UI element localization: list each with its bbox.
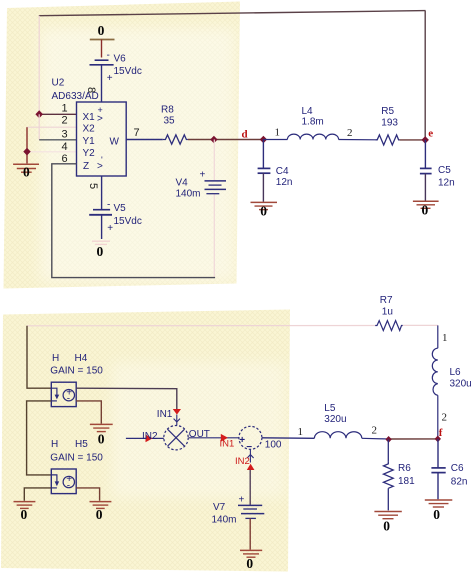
- svg-text:-: -: [67, 394, 70, 405]
- svg-text:H5: H5: [75, 439, 88, 450]
- svg-text:V4: V4: [176, 178, 189, 189]
- svg-text:+: +: [239, 435, 245, 446]
- svg-text:0: 0: [422, 203, 429, 218]
- svg-text:100: 100: [265, 439, 282, 450]
- wire W output pin7: [126, 139, 163, 141]
- svg-text:V5: V5: [114, 203, 127, 214]
- wire pin3 Y1: [39, 139, 76, 141]
- wire V7 to summer: [249, 470, 251, 505]
- wire H5 lower-right to ground: [76, 488, 99, 501]
- svg-text:-: -: [67, 480, 70, 491]
- svg-text:L6: L6: [450, 367, 462, 378]
- svg-text:2: 2: [372, 425, 378, 437]
- ground 0 at H5 left: [14, 502, 36, 522]
- wire H4 lower-left to H5: [27, 401, 52, 475]
- svg-text:0: 0: [383, 519, 390, 534]
- wire R5 to node e: [400, 139, 426, 141]
- svg-text:Y2: Y2: [83, 148, 96, 159]
- svg-text:>: >: [97, 114, 103, 125]
- svg-text:0: 0: [21, 507, 28, 522]
- capacitor C4: [258, 140, 293, 202]
- svg-text:1u: 1u: [382, 307, 393, 318]
- wire faint vertical X1 to Y1: [38, 114, 40, 140]
- wire node e vertical to top: [424, 11, 426, 140]
- svg-text:2: 2: [347, 127, 353, 139]
- svg-text:C6: C6: [451, 463, 464, 474]
- ground 0 at H5 right: [90, 502, 112, 522]
- svg-text:0: 0: [97, 244, 104, 259]
- svg-text:1: 1: [275, 127, 281, 139]
- svg-text:3: 3: [62, 129, 68, 141]
- svg-text:R8: R8: [161, 105, 174, 116]
- highlight box 1 (top yellow region): [4, 2, 241, 289]
- IN2 arrow: [146, 435, 153, 443]
- svg-text:U2: U2: [52, 78, 65, 89]
- wire X2 ground drop: [26, 127, 28, 163]
- svg-text:+: +: [200, 170, 206, 181]
- svg-text:GAIN = 150: GAIN = 150: [50, 366, 103, 377]
- junction at node e: [422, 136, 429, 144]
- junction at node f: [435, 436, 441, 443]
- wire H5 lower-left to ground: [24, 488, 51, 501]
- svg-text:C5: C5: [438, 165, 451, 176]
- wire faint pin2 X2: [27, 126, 77, 128]
- svg-text:193: 193: [381, 118, 398, 129]
- svg-text:e: e: [428, 128, 433, 140]
- transformer-source H5 body: [51, 469, 76, 494]
- svg-text:1: 1: [442, 332, 448, 344]
- wire IN2 into multiplier: [126, 437, 164, 439]
- svg-text:15Vdc: 15Vdc: [114, 216, 142, 227]
- IN1 arrow into multiplier: [173, 409, 181, 415]
- svg-text:H4: H4: [75, 353, 88, 364]
- source V7 140m: [212, 495, 265, 526]
- capacitor C5: [420, 140, 455, 201]
- summer IN1 arrow: [221, 434, 228, 442]
- wire faint R7 to L6: [403, 324, 438, 326]
- svg-text:82n: 82n: [451, 477, 468, 488]
- ground 0 below R6: [374, 512, 401, 534]
- svg-text:+: +: [239, 495, 245, 506]
- multiplier pin stub top: [174, 415, 180, 426]
- wire R8 to node d: [188, 139, 264, 141]
- source V5 15Vdc: [89, 176, 142, 239]
- wire multiplier OUT to summer: [188, 437, 239, 439]
- svg-text:12n: 12n: [438, 178, 455, 189]
- svg-text:V7: V7: [213, 502, 226, 513]
- svg-text:+: +: [107, 223, 113, 234]
- wire faint vertical input to X1: [38, 16, 40, 115]
- svg-text:H: H: [51, 439, 58, 450]
- resistor R5: [375, 135, 399, 145]
- svg-text:-: -: [107, 50, 110, 61]
- svg-text:-: -: [107, 200, 110, 211]
- svg-text:>: >: [97, 161, 103, 172]
- svg-text:320u: 320u: [324, 414, 346, 425]
- ground 0 below C6: [425, 500, 453, 522]
- ground 0 below C5: [413, 201, 439, 217]
- U2 pin numbers: [62, 87, 140, 189]
- svg-text:d: d: [242, 129, 248, 141]
- svg-text:Y1: Y1: [83, 136, 96, 147]
- svg-text:IN2: IN2: [235, 456, 250, 467]
- svg-text:0: 0: [96, 507, 103, 522]
- wire H4 lower-right to ground: [76, 401, 101, 424]
- svg-text:X1: X1: [83, 112, 96, 123]
- svg-text:7: 7: [134, 127, 140, 139]
- junction at R6 tap: [385, 436, 391, 443]
- wire faint R7 run left: [27, 325, 375, 327]
- junction at node d: [260, 136, 267, 144]
- source V6 15Vdc: [90, 50, 142, 102]
- svg-text:1.8m: 1.8m: [302, 117, 324, 128]
- ground 0 at H4 right: [90, 424, 113, 446]
- svg-text:2: 2: [62, 115, 68, 127]
- svg-text:1: 1: [62, 103, 68, 115]
- junction after R8: [210, 136, 217, 144]
- svg-text:140m: 140m: [176, 189, 201, 200]
- wire top feedback run: [39, 11, 426, 16]
- op-amp U2 AD633 body: [77, 102, 127, 176]
- svg-text:8: 8: [85, 87, 97, 93]
- ground 0 below V7: [240, 550, 262, 571]
- svg-text:H: H: [52, 353, 59, 364]
- svg-text:35: 35: [164, 116, 176, 127]
- svg-text:1: 1: [298, 426, 304, 438]
- wire H4 input vertical: [27, 326, 51, 388]
- svg-text:IN2: IN2: [142, 431, 158, 442]
- resistor R6: [384, 439, 416, 510]
- wire faint V4 feedback vertical: [213, 140, 215, 278]
- wire V7 to ground: [249, 518, 251, 549]
- ground 0 at X2/Y2: [13, 164, 39, 179]
- node junction at X1 input: [35, 110, 43, 118]
- svg-text:320u: 320u: [450, 379, 472, 390]
- wire pin1 X1: [39, 113, 76, 115]
- svg-text:C4: C4: [276, 166, 289, 177]
- wire L5 to node f: [389, 438, 438, 440]
- svg-text:GAIN = 150: GAIN = 150: [50, 452, 103, 463]
- wire H4 output to multiplier: [76, 388, 177, 409]
- svg-text:0: 0: [246, 556, 253, 571]
- ground 0 below V5 (faint): [92, 241, 110, 259]
- pale scan-light patch box1: [40, 28, 236, 282]
- node junction at Y2/ground: [23, 148, 30, 156]
- svg-text:0: 0: [98, 23, 105, 38]
- multiplier MULT circle: [164, 426, 188, 450]
- svg-text:140m: 140m: [212, 515, 237, 526]
- ground 0 above V6: [90, 23, 115, 58]
- svg-text:4: 4: [62, 141, 68, 153]
- inductor L5: [314, 432, 388, 439]
- summer bottom pin stub: [247, 450, 253, 463]
- svg-text:W: W: [110, 136, 120, 147]
- svg-text:V6: V6: [114, 54, 127, 65]
- svg-text:15Vdc: 15Vdc: [114, 66, 142, 77]
- svg-text:R7: R7: [380, 295, 393, 306]
- source V4 140m: [176, 170, 227, 200]
- resistor R7: [375, 321, 403, 331]
- capacitor C6: [431, 439, 467, 499]
- svg-text:X2: X2: [83, 124, 96, 135]
- highlight box 2 (bottom yellow region): [1, 310, 290, 572]
- svg-text:−: −: [246, 442, 252, 453]
- svg-text:R5: R5: [381, 106, 394, 117]
- ground 0 below C4: [251, 202, 278, 218]
- svg-text:R6: R6: [398, 463, 411, 474]
- transformer-source H4 body: [51, 382, 76, 406]
- inductor L6: [432, 325, 438, 438]
- svg-text:0: 0: [98, 432, 105, 447]
- svg-text:IN1: IN1: [220, 439, 235, 450]
- summer IN2 arrow up from V7: [247, 464, 255, 470]
- wire faint pin4 Y2: [27, 151, 77, 153]
- svg-text:12n: 12n: [276, 177, 293, 188]
- pale scan-light patch box2: [112, 362, 286, 498]
- wire summer out: [262, 437, 315, 440]
- resistor R8: [163, 135, 188, 144]
- summer SUM circle: [239, 426, 262, 449]
- U2 inside pin names: [83, 105, 120, 172]
- inductor L4: [263, 134, 375, 140]
- svg-text:0: 0: [260, 204, 267, 219]
- svg-text:0: 0: [23, 165, 30, 180]
- svg-text:0: 0: [433, 507, 440, 522]
- svg-text:2: 2: [442, 412, 448, 424]
- svg-text:5: 5: [87, 183, 99, 189]
- svg-text:+: +: [107, 73, 113, 84]
- svg-text:L5: L5: [324, 403, 336, 414]
- svg-text:L4: L4: [302, 106, 314, 117]
- svg-text:Z: Z: [83, 161, 89, 172]
- wire Z pin loop: [52, 164, 215, 278]
- svg-text:IN1: IN1: [157, 409, 173, 420]
- svg-text:181: 181: [398, 476, 415, 487]
